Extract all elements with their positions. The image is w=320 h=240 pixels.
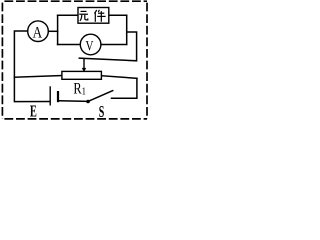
component box 元件 (device under test) xyxy=(78,8,109,24)
wire: right drop from rheostat to switch row xyxy=(112,78,137,98)
label 元 (glyph strokes) xyxy=(79,11,88,20)
wire: tap from right junction down to rheostat slider xyxy=(79,32,136,61)
wire: rheostat left lead to left bus xyxy=(14,76,62,78)
svg-text:S: S xyxy=(99,102,105,120)
label 件 (glyph strokes) xyxy=(94,10,105,22)
wire: junction to component box xyxy=(58,14,78,16)
switch S contact dot xyxy=(86,100,90,104)
switch S lever xyxy=(88,90,113,101)
svg-text:V: V xyxy=(86,37,94,54)
wire: voltmeter left lead xyxy=(58,44,80,46)
wire: component box output to right junction xyxy=(109,14,127,16)
node: left junction vertical xyxy=(57,15,59,44)
svg-text:A: A xyxy=(33,25,43,42)
battery E: long plate xyxy=(49,86,51,105)
wire: voltmeter right lead xyxy=(102,44,127,46)
svg-text:E: E xyxy=(30,102,37,120)
rheostat R1 body xyxy=(62,71,102,79)
ammeter A xyxy=(28,21,49,42)
wire: ammeter right lead to left junction xyxy=(49,30,58,32)
node: right junction vertical xyxy=(126,15,128,44)
rheostat R1 slider arrow xyxy=(82,58,86,72)
battery E: short thick plate xyxy=(57,91,59,102)
voltmeter V xyxy=(80,34,101,55)
wire: rheostat right lead xyxy=(101,76,136,79)
wire: left bus from ammeter corner down to battery row xyxy=(14,31,49,102)
wire: battery to switch contact xyxy=(59,100,88,103)
